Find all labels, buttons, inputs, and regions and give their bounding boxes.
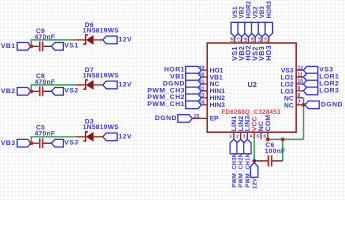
svg-text:12V: 12V	[118, 82, 132, 89]
svg-text:1N5819WS: 1N5819WS	[83, 72, 119, 79]
svg-text:470nF: 470nF	[35, 79, 56, 86]
svg-text:20: 20	[199, 73, 205, 79]
net flag LOR3	[303, 87, 317, 95]
svg-text:1N5819WS: 1N5819WS	[83, 27, 119, 34]
svg-text:PWM_CH3N: PWM_CH3N	[232, 153, 238, 188]
svg-text:VB3: VB3	[1, 140, 16, 147]
pin 7 NC (right)	[296, 104, 303, 106]
svg-text:HO3: HO3	[266, 45, 273, 61]
wire VB3 to D3	[31, 137, 75, 142]
junction node VB1	[29, 44, 33, 48]
pin 1 LIN1 (bottom)	[233, 132, 235, 139]
pin 16 HO2 (top)	[247, 37, 249, 43]
svg-text:22: 22	[199, 86, 205, 92]
net flag VS3	[303, 66, 317, 74]
svg-text:VS1: VS1	[233, 6, 239, 18]
pin 9 LO3 (right)	[296, 90, 303, 92]
junction COM	[266, 138, 270, 142]
junction C6 branch	[281, 138, 285, 142]
junction pin7 DGND	[302, 103, 306, 107]
pin 19 HO1 (left)	[200, 69, 208, 71]
svg-text:VS1: VS1	[64, 43, 78, 50]
svg-text:24: 24	[199, 100, 205, 106]
pin 11 LO1 (right)	[296, 76, 303, 78]
svg-text:14: 14	[257, 37, 263, 43]
svg-text:NC: NC	[284, 102, 294, 109]
net flag VB1	[186, 73, 202, 81]
svg-text:16: 16	[243, 37, 249, 43]
net flag PWM_CH3N	[230, 139, 237, 153]
svg-text:DGND: DGND	[321, 101, 343, 108]
net flag VS2	[51, 88, 63, 96]
net flag VS3	[51, 139, 63, 147]
net flag DGND	[305, 101, 319, 109]
pin 8 NC (right)	[296, 97, 303, 99]
capacitor C8 470nF	[40, 86, 52, 96]
svg-text:11: 11	[298, 72, 304, 78]
wire VCC pin4 to 12V (green)	[253, 139, 255, 163]
net flag LOR1	[303, 73, 317, 81]
wire DGND branch down to C6 (green)	[282, 139, 284, 161]
pin 23 HIN2 (left)	[200, 97, 208, 99]
svg-text:VS2: VS2	[64, 88, 78, 95]
svg-text:1: 1	[229, 134, 232, 140]
svg-text:8: 8	[298, 93, 301, 99]
net flag DGND	[178, 115, 193, 123]
svg-text:23: 23	[199, 93, 205, 99]
svg-text:15: 15	[250, 37, 256, 43]
net flag PWM_CH1N	[244, 139, 251, 153]
svg-text:12V: 12V	[252, 178, 258, 189]
svg-text:12V: 12V	[118, 134, 132, 141]
svg-text:13: 13	[264, 37, 270, 43]
pin 12 VS3 (right)	[296, 69, 303, 71]
svg-text:25: 25	[194, 114, 200, 120]
svg-text:HOR2: HOR2	[247, 0, 253, 18]
pin 3 LIN3 (bottom)	[246, 132, 248, 139]
svg-text:9: 9	[298, 86, 301, 92]
svg-text:1N5819WS: 1N5819WS	[83, 124, 119, 131]
svg-text:PWM_CH2: PWM_CH2	[147, 94, 185, 101]
svg-text:VB1: VB1	[1, 43, 16, 50]
svg-text:3: 3	[243, 134, 246, 140]
net flag VS1	[231, 22, 238, 36]
pin 25 EP (left)	[190, 117, 207, 119]
svg-text:7: 7	[298, 100, 301, 106]
junction node VB2	[29, 89, 33, 93]
capacitor C5 470nF	[40, 138, 52, 148]
net flag PWM_CH3	[186, 87, 202, 95]
net flag VB3	[17, 139, 31, 147]
net flag VS2	[252, 22, 259, 36]
svg-text:NC: NC	[284, 95, 294, 102]
svg-text:PWM_CH1: PWM_CH1	[147, 101, 185, 108]
svg-text:10: 10	[298, 79, 304, 85]
pin 14 VB3 (top)	[261, 37, 263, 43]
svg-text:PWM_CH2N: PWM_CH2N	[239, 153, 245, 188]
svg-text:470nF: 470nF	[35, 131, 56, 138]
net flag HOR3	[265, 22, 272, 36]
pin 5 NC (bottom)	[260, 132, 262, 139]
diode D6 1N5819WS	[75, 35, 102, 45]
svg-text:VB2: VB2	[240, 6, 246, 19]
net flag PWM_CH2N	[237, 139, 244, 153]
net flag 12V	[103, 36, 117, 44]
capacitor C9 470nF	[40, 41, 52, 51]
svg-text:12V: 12V	[118, 37, 132, 44]
pin 15 VS2 (top)	[254, 37, 256, 43]
diode D7 1N5819WS	[75, 80, 102, 90]
net flag DGND	[186, 80, 202, 88]
wire VB2 to C8	[30, 90, 39, 92]
svg-text:6: 6	[263, 134, 266, 140]
net flag HOR1	[186, 66, 202, 74]
svg-text:U2: U2	[248, 82, 257, 89]
net flag VB2	[17, 88, 31, 96]
net flag VB3	[258, 22, 265, 36]
net flag 12V	[103, 133, 117, 141]
diode D3 1N5819WS	[75, 132, 102, 142]
svg-text:19: 19	[199, 66, 205, 72]
pin 4 VCC (bottom)	[253, 132, 255, 139]
net flag PWM_CH2	[186, 94, 202, 102]
junction node VB3	[29, 141, 33, 145]
pin 20 VB1 (left)	[200, 76, 208, 78]
junction 12V / C6	[252, 159, 256, 163]
wire VB3 to C5	[30, 142, 39, 144]
pin 2 LIN2 (bottom)	[240, 132, 242, 139]
net flag PWM_CH1	[186, 101, 202, 109]
svg-text:LOR3: LOR3	[319, 87, 339, 94]
net flag 12V	[251, 163, 258, 177]
pin 24 HIN3 (left)	[200, 104, 208, 106]
svg-text:COM: COM	[265, 115, 272, 132]
IC body U2	[207, 43, 296, 132]
svg-text:VB3: VB3	[260, 6, 266, 19]
svg-text:100nF: 100nF	[265, 148, 286, 155]
wire pin8/pin7 to DGND (green)	[303, 98, 305, 140]
svg-text:VS2: VS2	[253, 6, 259, 18]
net flag 12V	[103, 81, 117, 89]
svg-text:18: 18	[230, 37, 236, 43]
svg-text:21: 21	[199, 79, 205, 85]
pin 13 HO3 (top)	[268, 37, 270, 43]
svg-text:VB2: VB2	[1, 88, 16, 95]
pin 10 LO2 (right)	[296, 83, 303, 85]
svg-text:VS3: VS3	[64, 139, 78, 146]
svg-text:EP: EP	[210, 116, 219, 123]
pin 6 COM (bottom)	[267, 132, 269, 139]
svg-text:DGND: DGND	[155, 115, 177, 122]
pin 21 NC (left)	[200, 83, 208, 85]
net flag VS1	[51, 43, 63, 51]
pin 22 HIN1 (left)	[200, 90, 208, 92]
wire VB1 to D6	[31, 40, 75, 45]
net flag VB2	[238, 22, 245, 36]
wire VB1 to C9	[30, 45, 39, 47]
svg-text:17: 17	[236, 37, 242, 43]
svg-text:2: 2	[236, 134, 239, 140]
svg-text:12: 12	[298, 65, 304, 71]
svg-text:FD6288Q_C328453: FD6288Q_C328453	[222, 109, 281, 116]
wire VB2 to D7	[31, 85, 75, 90]
svg-text:4: 4	[250, 134, 253, 140]
net flag LOR2	[303, 80, 317, 88]
capacitor C6 100nF	[254, 155, 283, 166]
svg-text:5: 5	[257, 134, 260, 140]
net flag HOR2	[245, 22, 252, 36]
svg-text:HIN3: HIN3	[210, 102, 226, 109]
svg-text:HOR3: HOR3	[267, 0, 273, 18]
net flag VB1	[17, 43, 31, 51]
pin 18 VS1 (top)	[234, 37, 236, 43]
svg-text:HIN2: HIN2	[210, 95, 226, 102]
wire COM pin6 to DGND net (green)	[268, 138, 304, 140]
svg-text:470nF: 470nF	[35, 34, 56, 41]
pin 17 VB2 (top)	[241, 37, 243, 43]
